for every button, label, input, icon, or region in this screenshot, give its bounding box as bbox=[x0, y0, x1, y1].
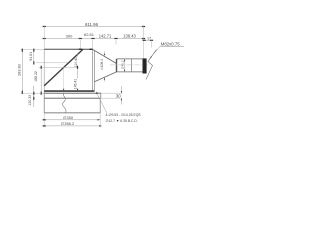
dim D2 stubs bbox=[43, 38, 146, 40]
break S-curve in base bbox=[62, 93, 66, 112]
extension x=116 upper bbox=[115, 40, 117, 45]
body top edge bold stub at 91 bbox=[89, 48, 92, 50]
dim D9 arrows bbox=[124, 59, 125, 61]
dim D10 arrows bbox=[121, 91, 122, 93]
dim D8 line segments bbox=[104, 52, 106, 54]
body top edge bold stub at 80.3 bbox=[79, 48, 82, 50]
tube joint x=116.5 bbox=[116, 59, 118, 72]
svg-text:94.61: 94.61 bbox=[29, 52, 33, 61]
tube top edge bbox=[117, 58, 143, 60]
extension y=67.3 across body bbox=[39, 66, 79, 68]
base left edge bbox=[43, 93, 45, 113]
dim D11 17 line bbox=[143, 39, 151, 41]
funnel top taper bbox=[93, 49, 117, 63]
dim DV stubs bbox=[40, 66, 42, 95]
leader arrowhead bbox=[96, 92, 98, 95]
svg-text:17: 17 bbox=[147, 37, 151, 41]
extension x=80.3 bbox=[79, 40, 81, 49]
dim D8 arrows bbox=[104, 54, 105, 56]
dim D6 stubs bbox=[33, 92, 35, 100]
base cylinder right edge bbox=[99, 98, 101, 113]
dim D7 stub at 67.3 bbox=[77, 66, 79, 69]
dim line D1 overall 611.96 bbox=[44, 26, 143, 28]
body back edge x=94.4 bbox=[93, 50, 95, 91]
extension x=44.2 below base bbox=[43, 113, 45, 127]
break zigzag at tube end bbox=[146, 50, 157, 80]
base plate top edge bbox=[44, 92, 101, 94]
svg-text:110.41: 110.41 bbox=[74, 57, 78, 67]
dim line D2 chained row bbox=[44, 38, 143, 40]
svg-text:142.71: 142.71 bbox=[99, 34, 112, 39]
base divider extension right bbox=[100, 97, 122, 99]
extension y=93.2 to left bbox=[21, 92, 44, 94]
dim D9 line bbox=[124, 59, 126, 72]
svg-text:145.41: 145.41 bbox=[73, 79, 77, 89]
base plate right edge bbox=[100, 93, 102, 98]
flange threaded end bbox=[143, 58, 147, 73]
svg-text:188.22: 188.22 bbox=[34, 71, 38, 82]
body top edge bbox=[44, 48, 92, 50]
body back edge x=92.6 bbox=[92, 49, 94, 91]
svg-text:62.61: 62.61 bbox=[84, 32, 95, 37]
dim D6 vertical 120.32 bbox=[33, 86, 35, 108]
svg-text:∅40.2: ∅40.2 bbox=[120, 60, 124, 69]
leader 4x dia9 holes bbox=[96, 92, 107, 113]
dim DH vertical at x=63.6 bbox=[63, 68, 65, 91]
svg-text:∅350: ∅350 bbox=[63, 115, 74, 120]
dim D12a dia350 line bbox=[44, 119, 100, 121]
funnel bottom taper bbox=[94, 72, 116, 82]
body thick bottom edge bbox=[44, 90, 94, 92]
dim D12b left stub bbox=[43, 125, 46, 127]
dim D5 stubs bbox=[33, 49, 35, 65]
thread label underline bbox=[161, 45, 185, 47]
dim D4 vertical 283.83 bbox=[21, 49, 23, 93]
dim D12a left stub bbox=[43, 119, 46, 121]
svg-text:120.32: 120.32 bbox=[28, 95, 32, 106]
dim D1 end stubs bbox=[43, 26, 146, 28]
extension y=62.8 bbox=[36, 62, 69, 64]
svg-text:138.43: 138.43 bbox=[123, 34, 136, 39]
svg-text:283.83: 283.83 bbox=[18, 64, 22, 76]
svg-text:30: 30 bbox=[116, 94, 121, 99]
base cylinder bottom edge bbox=[44, 112, 100, 114]
dim D11 stubs bbox=[143, 39, 154, 41]
base divider y=98.2 bbox=[44, 97, 100, 99]
tube joint x=131.5 bbox=[131, 59, 133, 72]
body left edge bbox=[43, 49, 45, 93]
extension x=92.6 upper bbox=[92, 40, 94, 49]
svg-text:∅12.7 ▼ 6.35 B.C.D.: ∅12.7 ▼ 6.35 B.C.D. bbox=[106, 119, 138, 123]
dim D12b dia356 line bbox=[44, 125, 102, 127]
dim D7 bottom arrow bbox=[77, 89, 79, 91]
extension x=100.2 below base bbox=[99, 113, 101, 127]
leader M8x0.75 bbox=[150, 46, 161, 59]
centerline optical axis bbox=[110, 64, 148, 66]
svg-text:611.96: 611.96 bbox=[85, 22, 99, 27]
body hypotenuse mirror face bbox=[44, 49, 83, 86]
tube bottom edge bbox=[117, 71, 143, 73]
svg-text:∅108.4: ∅108.4 bbox=[100, 59, 104, 70]
dim DV vertical at x=41.2 bbox=[40, 66, 42, 93]
dim DH bottom arrow bbox=[63, 89, 64, 91]
dim D12b right arrow bbox=[99, 125, 102, 127]
leader arrowhead bbox=[150, 56, 152, 58]
extension x=143.5 bbox=[143, 25, 145, 58]
extension top edge to left bbox=[21, 48, 44, 50]
dim D5 vertical 94.61 bbox=[33, 49, 35, 63]
dim D12a right arrow bbox=[98, 119, 101, 121]
base plate top extension right bbox=[101, 92, 122, 94]
dim D7 vertical inside body bbox=[77, 54, 79, 57]
svg-text:300: 300 bbox=[66, 34, 73, 39]
svg-text:∅356.2: ∅356.2 bbox=[61, 121, 75, 126]
extension x=44.2 upper bbox=[43, 25, 45, 50]
svg-text:M82x0.75: M82x0.75 bbox=[161, 41, 180, 46]
dim D10 plate thickness 30 bbox=[121, 86, 123, 93]
extension x=151.5 bbox=[151, 40, 153, 47]
dim D4 stubs bbox=[21, 49, 23, 94]
svg-text:4-∅9.53 - ∅14.28 EQS: 4-∅9.53 - ∅14.28 EQS bbox=[106, 113, 142, 117]
